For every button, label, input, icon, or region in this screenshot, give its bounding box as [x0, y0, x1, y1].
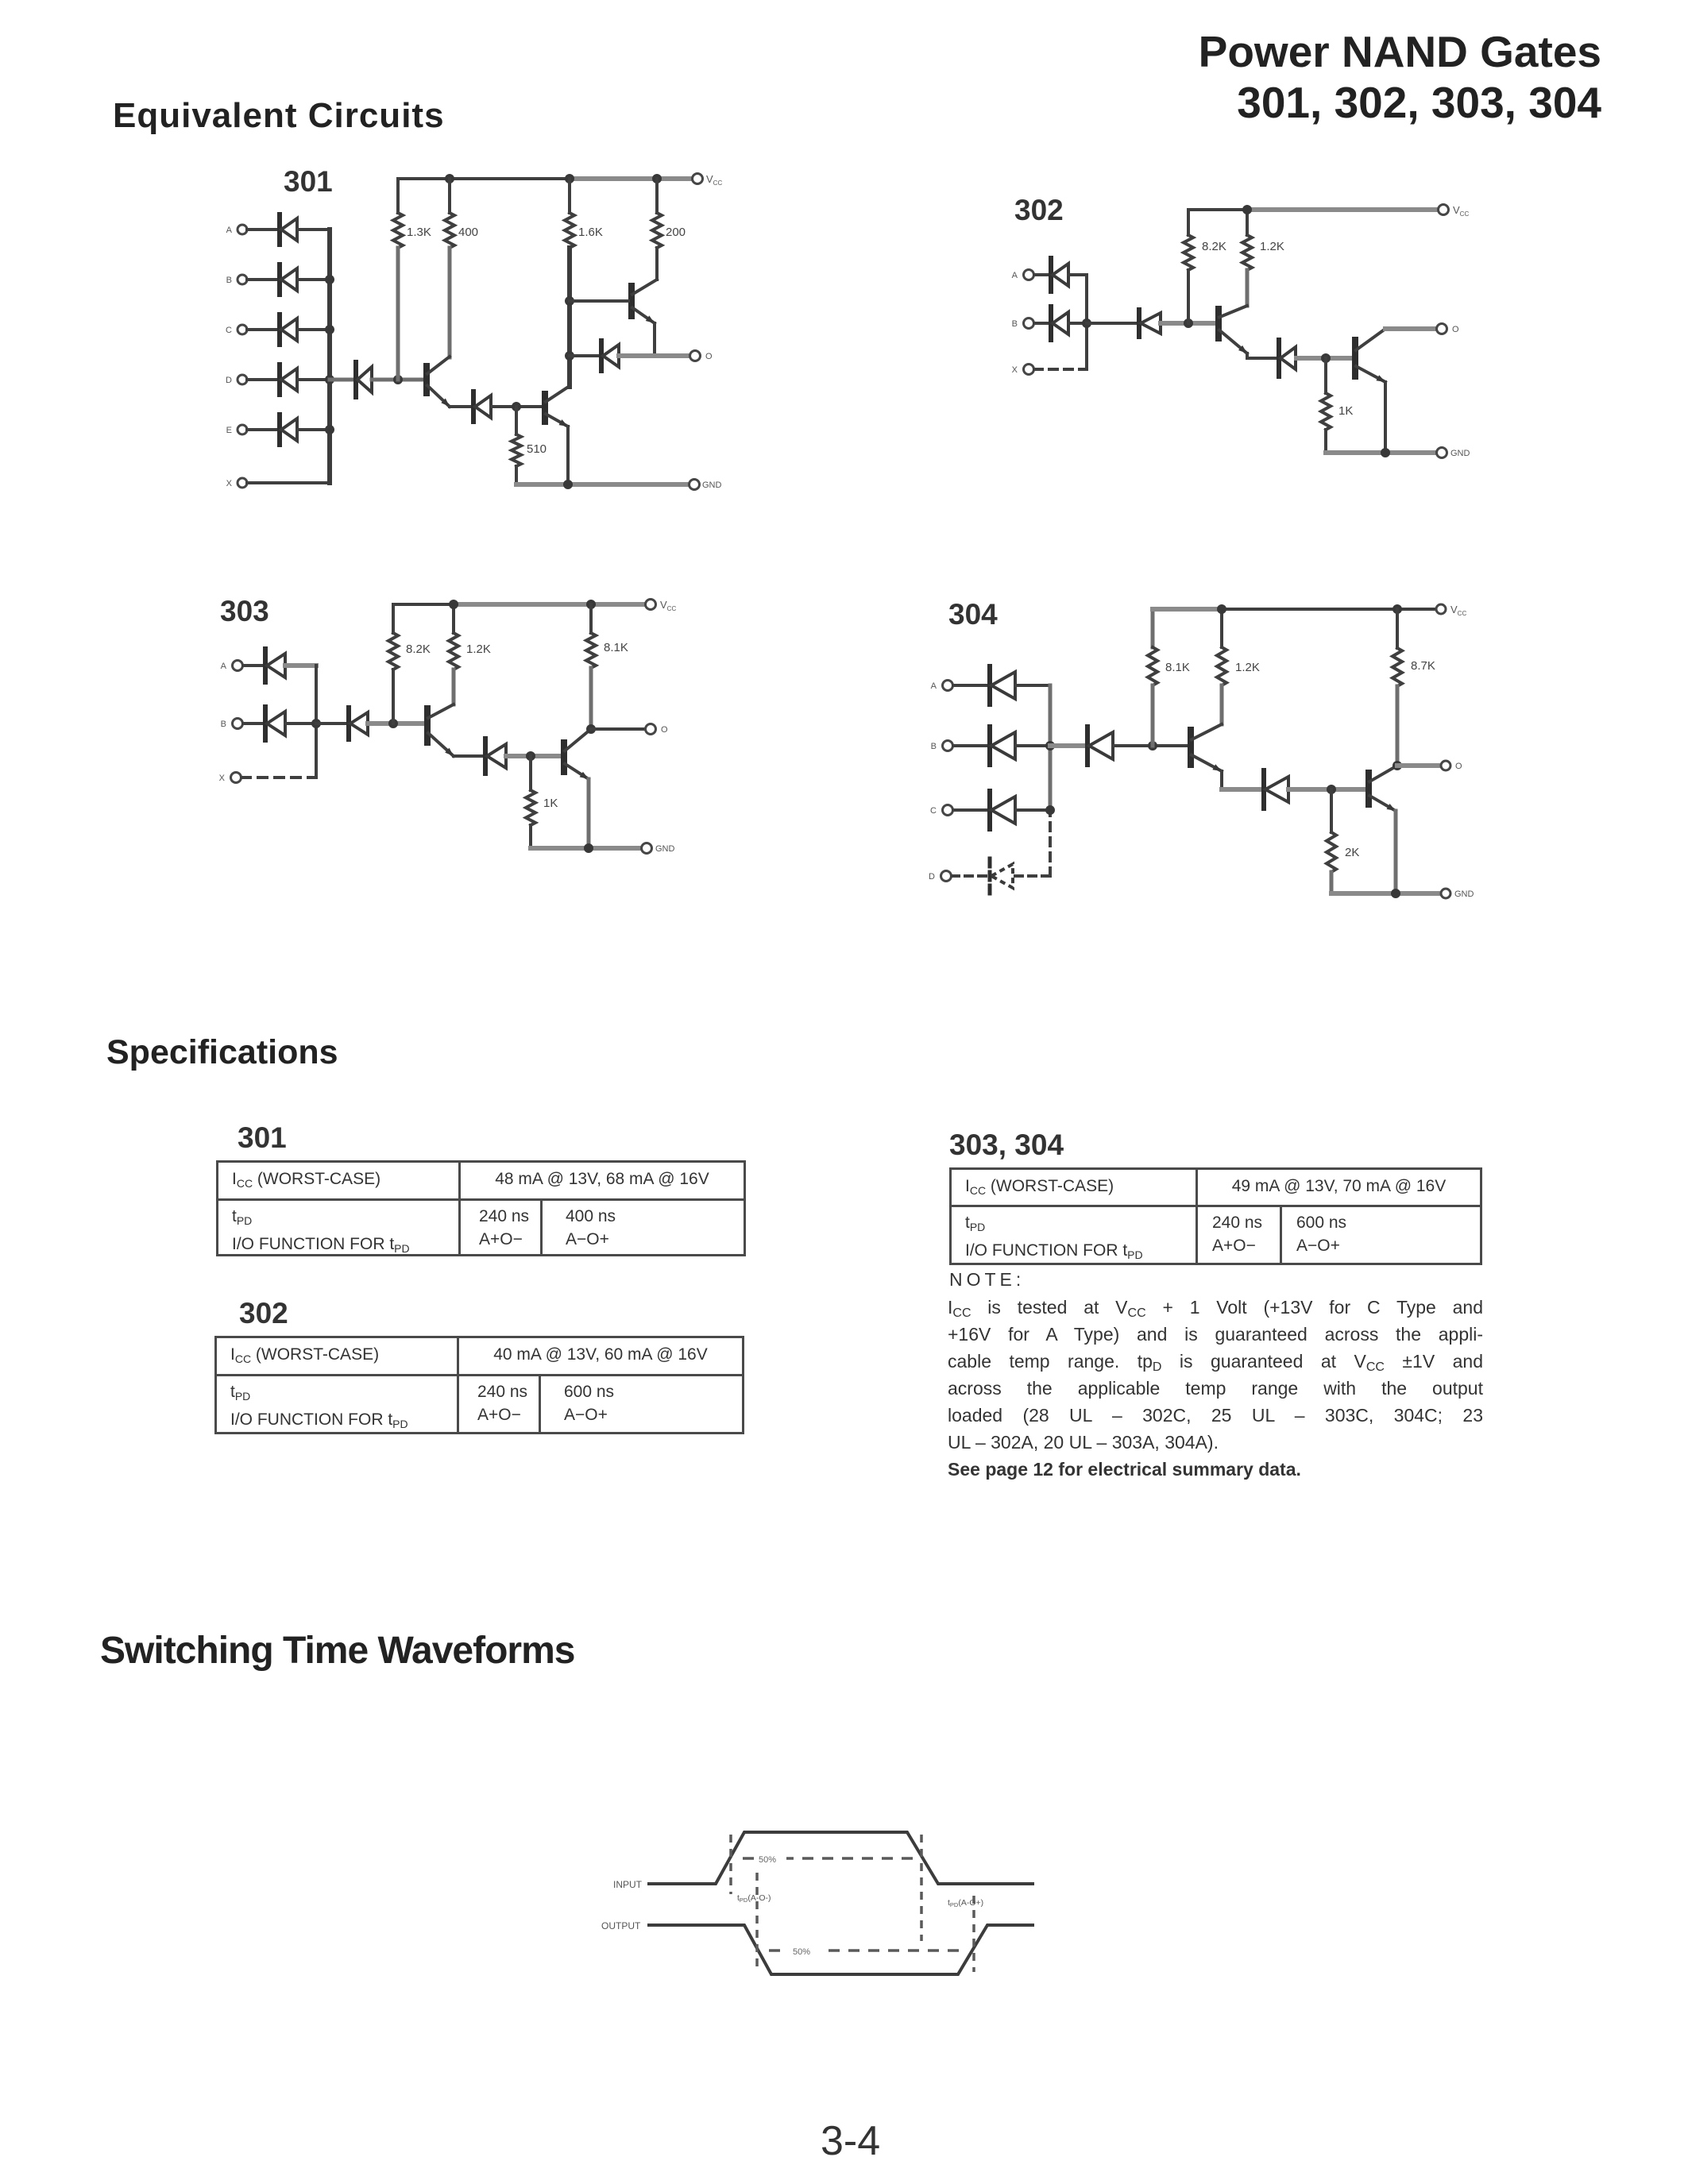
resistor R1 1.3K	[396, 179, 400, 213]
dashed bus segment	[1049, 810, 1052, 876]
Vcc rail	[1153, 607, 1223, 612]
input diode DB	[953, 744, 990, 747]
node: rail junction R3	[565, 174, 574, 183]
note heading	[949, 1269, 1025, 1291]
svg-text:X: X	[219, 774, 226, 783]
resistor R1 8.2K	[392, 604, 395, 633]
node: rail junction R2	[445, 174, 454, 183]
input diode DD	[247, 378, 280, 381]
resistor R3 1.6K	[568, 179, 571, 213]
dashed marker output rise	[972, 1896, 975, 1972]
transistor Q1	[1188, 730, 1194, 765]
spec table 303, 304	[949, 1167, 1482, 1265]
diode D4	[483, 739, 488, 774]
input diode DA	[243, 664, 265, 667]
input waveform trace	[647, 1832, 1034, 1884]
node: bus at B	[311, 719, 321, 728]
diode D4	[1277, 340, 1281, 376]
resistor R4 2K	[1330, 789, 1333, 832]
input bus	[327, 230, 332, 483]
section heading: Specifications	[106, 1033, 338, 1072]
svg-text:302: 302	[1014, 194, 1064, 226]
node: rail at R3	[586, 600, 596, 609]
input diode DA	[953, 684, 990, 687]
node: rail junction R4	[652, 174, 662, 183]
bus junction B	[325, 275, 334, 284]
Vcc terminal	[646, 600, 656, 610]
node: emitter on gnd	[1381, 448, 1390, 457]
input terminal X	[238, 478, 247, 488]
gnd rail	[516, 482, 689, 487]
resistor R2 400	[448, 179, 451, 213]
svg-text:X: X	[226, 479, 233, 488]
schematic 304	[914, 588, 1549, 921]
node: R1 bottom / Q1 base	[1184, 318, 1193, 328]
transistor Q3	[628, 286, 635, 316]
dashed marker output fall	[755, 1873, 759, 1972]
schematic 303	[203, 584, 759, 893]
input diode DA	[247, 228, 280, 231]
wire Q2 emitter down	[1394, 811, 1398, 893]
input terminal D	[238, 375, 247, 384]
svg-text:50%: 50%	[759, 1855, 776, 1865]
resistor R2 1.2K	[1220, 609, 1223, 647]
input terminal B	[238, 275, 247, 284]
gnd rail	[531, 846, 641, 851]
input terminal X	[231, 773, 241, 783]
svg-text:B: B	[1012, 319, 1018, 329]
bus junction E	[325, 425, 334, 434]
transistor Q1	[424, 708, 431, 743]
svg-text:VCC: VCC	[1453, 204, 1469, 218]
svg-text:A: A	[1012, 271, 1018, 280]
Vcc rail	[1188, 208, 1249, 211]
output terminal O	[646, 724, 656, 735]
svg-text:GND: GND	[1450, 449, 1470, 458]
section heading: Switching Time Waveforms	[100, 1629, 574, 1673]
wire Q1 emitter	[1246, 353, 1249, 358]
dashed marker input fall	[920, 1835, 923, 1941]
input terminal C	[943, 805, 953, 816]
transistor Q1	[423, 366, 430, 393]
table label 302	[239, 1297, 288, 1330]
input terminal A	[1024, 270, 1034, 280]
page header title	[1199, 26, 1601, 128]
note paragraph	[948, 1297, 1483, 1324]
input bus	[1085, 275, 1088, 369]
schematic 302	[985, 183, 1509, 500]
input diode DC	[953, 808, 990, 812]
output terminal O	[1441, 761, 1450, 770]
wire Q1 emitter	[454, 754, 485, 758]
node: R1 bottom / Q1 base	[388, 719, 398, 728]
node: output diode tap	[565, 351, 574, 361]
svg-text:VCC: VCC	[1450, 604, 1466, 617]
resistor R3 8.1K	[589, 604, 593, 633]
svg-text:GND: GND	[1454, 889, 1474, 899]
svg-text:2K: 2K	[1345, 846, 1359, 859]
input terminal A	[233, 661, 243, 671]
series diode D6	[330, 378, 356, 382]
transistor Q2	[1352, 340, 1358, 376]
svg-text:50%: 50%	[793, 1947, 810, 1957]
svg-text:A: A	[221, 662, 227, 671]
input bus	[1049, 685, 1053, 810]
input diode DB	[1034, 322, 1051, 325]
transistor Q2	[542, 394, 548, 422]
Vcc rail	[398, 177, 575, 180]
resistor R4 200	[655, 179, 659, 213]
output terminal O	[690, 351, 701, 361]
node: rail at R2	[449, 600, 458, 609]
schematic 301	[203, 151, 759, 516]
svg-text:O: O	[705, 352, 713, 361]
dashed expander wire	[241, 776, 316, 779]
node: R1 bottom / Q1 base	[1148, 741, 1157, 751]
svg-text:1K: 1K	[543, 797, 558, 810]
Vcc rail	[393, 603, 455, 606]
svg-text:8.2K: 8.2K	[406, 642, 431, 656]
gnd rail	[1326, 450, 1436, 455]
node: Q3 base tap	[565, 296, 574, 306]
svg-text:1.6K: 1.6K	[578, 226, 603, 239]
diode D7 (level shift)	[450, 405, 473, 408]
page number	[821, 2117, 880, 2165]
input terminal A	[943, 681, 953, 691]
input terminal E	[238, 425, 247, 434]
svg-text:INPUT: INPUT	[613, 1879, 643, 1890]
resistor R3 8.7K	[1396, 609, 1399, 648]
svg-text:1.2K: 1.2K	[1235, 661, 1260, 674]
node: R4 top	[526, 751, 535, 761]
transistor Q1	[1215, 309, 1222, 338]
input diode DB	[243, 722, 265, 725]
input terminal B	[233, 719, 243, 729]
wire Q2 collector to output	[1385, 326, 1436, 331]
node: R3 top	[1321, 353, 1331, 363]
dashed marker tpd fall start	[729, 1835, 732, 1894]
wire Q2 emitter down	[1384, 382, 1387, 453]
svg-text:8.2K: 8.2K	[1202, 240, 1226, 253]
svg-text:OUTPUT: OUTPUT	[601, 1920, 641, 1931]
svg-text:O: O	[661, 725, 668, 735]
svg-text:A: A	[931, 681, 937, 691]
svg-text:301: 301	[284, 165, 333, 198]
svg-text:C: C	[226, 326, 232, 335]
input bus	[315, 666, 318, 778]
transistor Q2	[561, 743, 567, 772]
svg-text:1.3K: 1.3K	[407, 226, 431, 239]
gnd rail	[1331, 891, 1440, 896]
input terminal B	[1024, 318, 1034, 329]
wire Q2 emitter to gnd	[566, 426, 570, 484]
node: emitter on gnd	[1391, 889, 1400, 898]
resistor R1 8.2K	[1187, 210, 1190, 235]
node: R4 top	[1327, 785, 1336, 794]
node: bus at C	[1045, 805, 1055, 815]
output 50% dashed level	[769, 1949, 964, 1952]
dashed input diode DD	[952, 874, 990, 878]
svg-text:tPD(A-O+): tPD(A-O+)	[948, 1898, 983, 1908]
node: bus at B	[1045, 741, 1055, 751]
node: collector/output	[586, 724, 596, 734]
input diode DB	[247, 278, 280, 281]
svg-text:400: 400	[458, 226, 478, 239]
svg-text:1.2K: 1.2K	[466, 642, 491, 656]
node: rail at R2	[1242, 205, 1252, 214]
node: rail at R2	[1217, 604, 1226, 614]
svg-text:200: 200	[666, 226, 686, 239]
output waveform trace	[647, 1925, 1034, 1974]
svg-text:8.7K: 8.7K	[1411, 659, 1435, 673]
svg-text:VCC: VCC	[660, 599, 676, 612]
svg-text:tPD(A-O-): tPD(A-O-)	[737, 1893, 771, 1904]
svg-text:GND: GND	[702, 480, 722, 490]
output diode D8	[570, 354, 601, 357]
series diode D5	[1050, 743, 1087, 748]
wire Q2 emitter down	[587, 779, 591, 848]
svg-text:1K: 1K	[1338, 404, 1353, 418]
GND terminal	[642, 843, 652, 854]
series diode D3	[316, 722, 349, 725]
wire to output	[591, 727, 645, 731]
svg-text:E: E	[226, 426, 232, 435]
svg-text:O: O	[1452, 325, 1459, 334]
waveform diagram	[588, 1811, 1080, 2017]
Vcc terminal	[1439, 205, 1449, 215]
node: collector/output	[1393, 761, 1402, 770]
Vcc terminal	[693, 174, 703, 184]
svg-text:D: D	[226, 376, 232, 385]
diode D6	[1261, 770, 1266, 808]
node: rail at R3	[1393, 604, 1402, 614]
svg-text:C: C	[930, 806, 937, 816]
wire Q3 base	[570, 299, 628, 303]
svg-text:GND: GND	[655, 844, 675, 854]
svg-text:X: X	[1012, 365, 1018, 375]
node: emitter on gnd	[584, 843, 593, 853]
input diode DA	[1034, 273, 1051, 276]
input terminal C	[238, 325, 247, 334]
svg-text:B: B	[221, 720, 226, 729]
input diode DE	[247, 428, 280, 431]
dashed expander wire	[1034, 368, 1087, 371]
resistor R2 1.2K	[452, 604, 455, 633]
input 50% dashed level	[743, 1857, 921, 1860]
node: base of Q1 / R1 bottom	[393, 375, 403, 384]
svg-text:A: A	[226, 226, 233, 235]
output terminal O	[1437, 324, 1447, 334]
spec table 302	[214, 1336, 744, 1434]
node: R5 top	[512, 402, 521, 411]
svg-text:8.1K: 8.1K	[1165, 661, 1190, 674]
GND terminal	[1441, 889, 1450, 898]
input diode DC	[247, 328, 280, 331]
input terminal X	[1024, 365, 1034, 375]
svg-text:O: O	[1455, 762, 1462, 771]
wire to output	[1397, 763, 1440, 768]
GND terminal	[1437, 448, 1447, 458]
bus junction D	[325, 375, 334, 384]
wire Q3 emitter down	[653, 323, 656, 356]
resistor R4 1K	[529, 756, 532, 790]
node: bus at B	[1082, 318, 1091, 328]
svg-text:8.1K: 8.1K	[604, 641, 628, 654]
series diode D3	[1087, 322, 1139, 325]
bus junction C	[325, 325, 334, 334]
svg-text:D: D	[929, 872, 935, 882]
svg-text:510: 510	[527, 442, 547, 456]
table label 301	[238, 1121, 287, 1155]
wire X to bus	[247, 481, 330, 484]
Vcc terminal	[1436, 604, 1446, 614]
svg-text:304: 304	[948, 598, 998, 631]
node: emitter junction on gnd	[563, 480, 573, 489]
resistor R3 1K	[1324, 358, 1327, 393]
resistor R1 8.1K	[1151, 609, 1155, 647]
transistor Q2	[1365, 773, 1372, 805]
section heading: Equivalent Circuits	[113, 96, 445, 136]
svg-text:VCC: VCC	[706, 173, 722, 187]
svg-text:B: B	[931, 742, 937, 751]
input terminal A	[238, 225, 247, 234]
table label 303, 304	[949, 1129, 1064, 1162]
spec table 301	[216, 1160, 746, 1256]
input terminal B	[943, 741, 953, 751]
resistor R5 510	[515, 407, 518, 434]
svg-text:B: B	[226, 276, 232, 285]
svg-text:303: 303	[220, 595, 269, 627]
input terminal D	[941, 871, 952, 882]
GND terminal	[689, 480, 700, 490]
wire Q1 emitter	[1220, 771, 1223, 789]
resistor R2 1.2K	[1246, 210, 1249, 235]
svg-text:1.2K: 1.2K	[1260, 240, 1284, 253]
